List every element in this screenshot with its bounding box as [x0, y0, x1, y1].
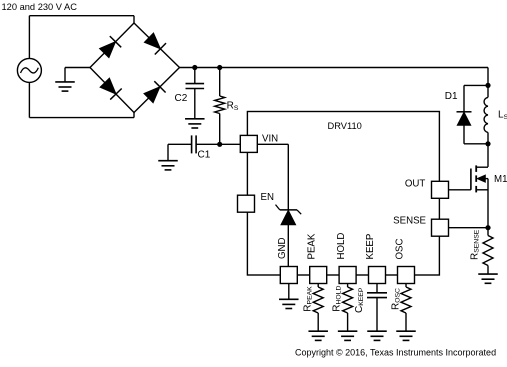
svg-text:SENSE: SENSE [393, 216, 426, 227]
svg-text:M1: M1 [494, 174, 507, 185]
svg-text:PEAK: PEAK [306, 233, 317, 259]
svg-text:OUT: OUT [405, 178, 426, 189]
svg-text:KEEP: KEEP [365, 234, 376, 260]
svg-text:VIN: VIN [262, 134, 278, 145]
svg-text:120 and 230 V AC: 120 and 230 V AC [2, 2, 78, 12]
svg-text:Copyright © 2016, Texas Instru: Copyright © 2016, Texas Instruments Inco… [295, 347, 496, 357]
svg-text:C1: C1 [198, 150, 211, 161]
svg-text:OSC: OSC [395, 239, 406, 260]
svg-text:DRV110: DRV110 [328, 121, 362, 131]
svg-text:GND: GND [277, 237, 288, 259]
svg-text:C2: C2 [175, 93, 188, 104]
svg-text:HOLD: HOLD [336, 233, 347, 260]
svg-text:EN: EN [261, 192, 274, 203]
svg-text:D1: D1 [445, 91, 458, 102]
